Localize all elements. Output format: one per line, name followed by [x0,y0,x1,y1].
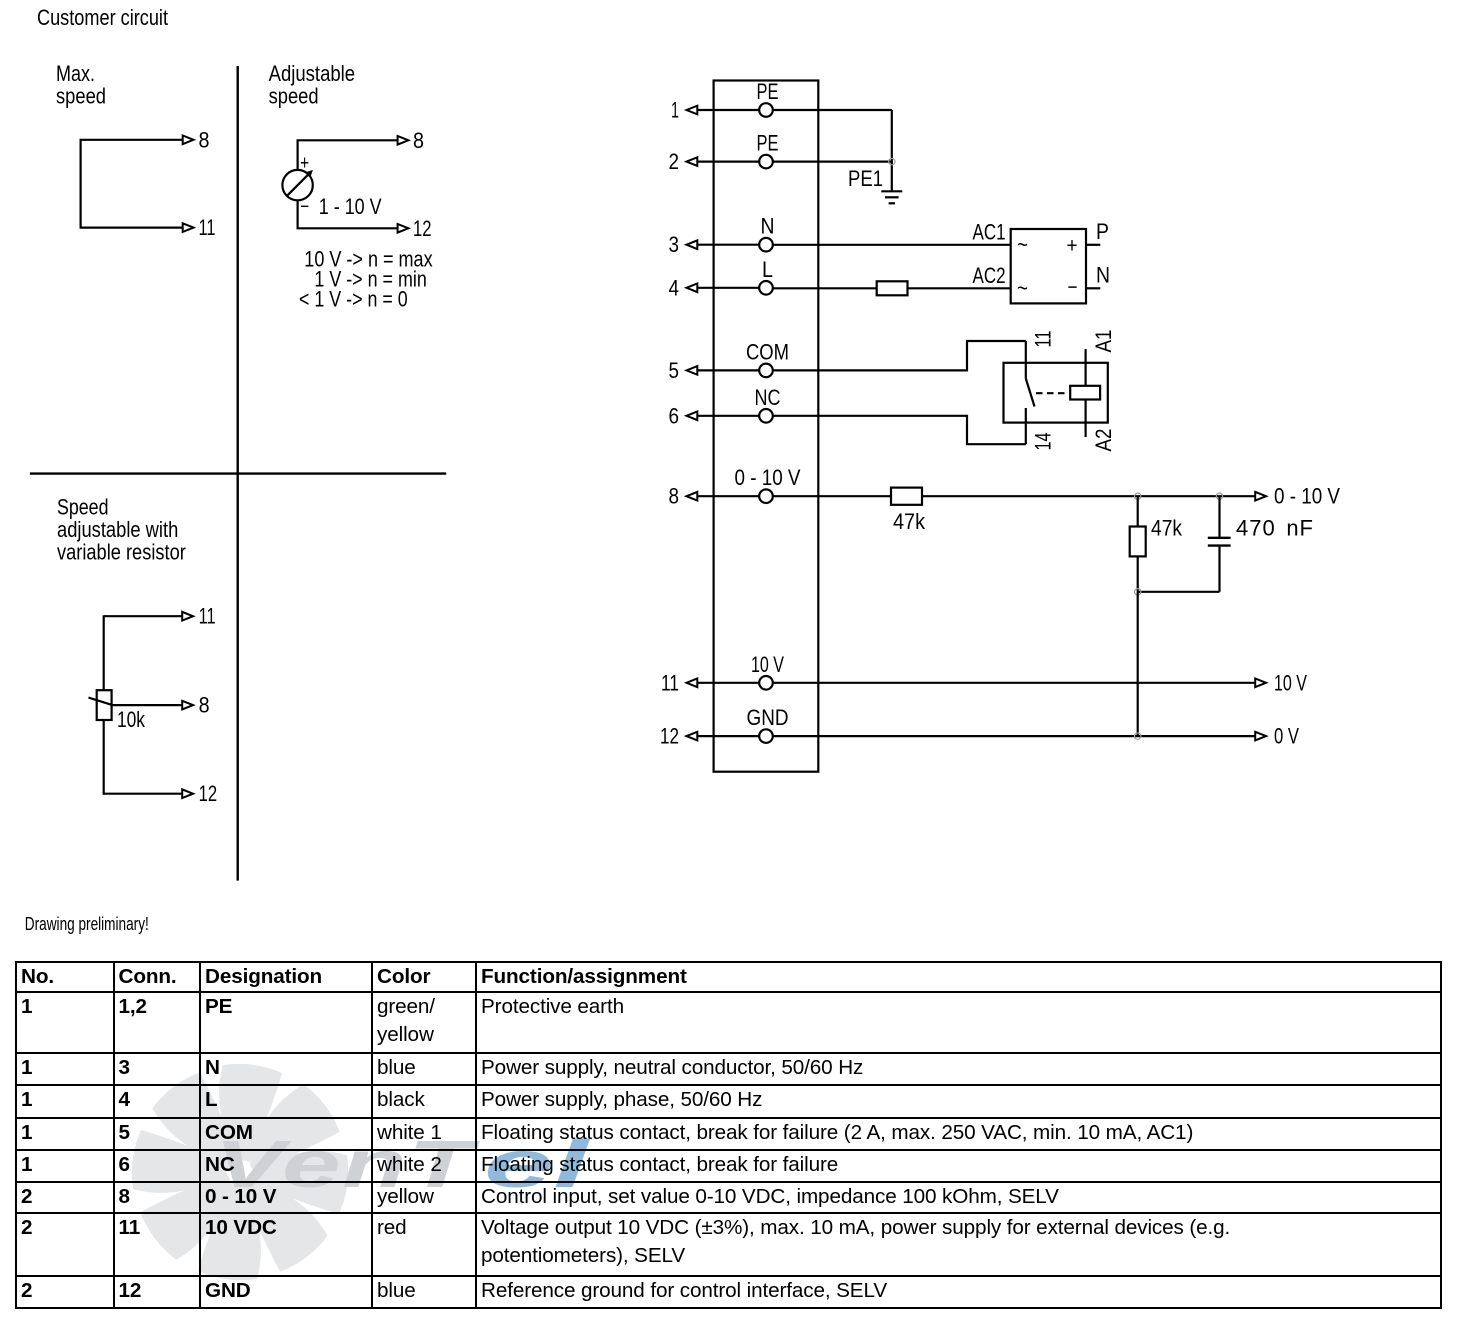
label - [300,196,309,218]
svg-text:L: L [762,257,773,282]
pin 5 label COM [746,339,789,364]
wire pin2 to PE1 [766,161,892,163]
fuse F1 [877,281,908,295]
svg-text:8: 8 [199,127,210,152]
svg-text:Max.: Max. [56,61,95,86]
connector block X1 [714,81,819,772]
pin 8 terminal circle [759,489,773,503]
value 1 - 10 V [319,194,382,219]
wire pot bottom lead [103,720,105,795]
rectifier U1 [1011,229,1086,303]
pin 2 label PE [757,131,779,156]
svg-text:COM: COM [746,339,789,364]
pin 1 wire [687,106,767,115]
svg-text:Drawing preliminary!: Drawing preliminary! [25,914,149,934]
svg-text:3: 3 [669,232,680,257]
voltage source 1-10V [282,170,313,200]
svg-text:speed: speed [269,84,319,109]
wire pin11 to output 10V [766,679,1266,688]
value 47k [893,509,926,534]
note voltage-speed mapping [299,247,433,312]
wire node B to C1 [1218,496,1220,537]
svg-text:2: 2 [669,149,680,174]
capacitor C1 470 nF [1208,538,1231,546]
pin 12 terminal circle [759,729,773,743]
label Adjustable speed [269,61,356,109]
label N [1096,262,1110,287]
svg-text:~: ~ [1017,232,1028,257]
node 8 [199,693,210,718]
pin 2 terminal circle [759,155,773,169]
svg-text:AC2: AC2 [973,263,1006,288]
svg-text:Customer circuit: Customer circuit [37,5,168,30]
wire max-speed vertical [79,139,81,229]
svg-text:variable resistor: variable resistor [57,540,186,565]
svg-text:< 1 V -> n = 0: < 1 V -> n = 0 [299,287,408,312]
node 12 [199,781,218,806]
svg-text:1 - 10 V: 1 - 10 V [319,194,382,219]
pin 2 wire [687,157,767,166]
relay K1 body [1004,363,1108,423]
divider vertical [236,66,238,881]
pin 5 number [669,358,680,383]
pin 12 label GND [747,705,789,730]
svg-text:8: 8 [669,484,680,509]
label A1 [1091,330,1116,353]
wire fuse to AC2 [908,287,1011,289]
heading Customer circuit [37,5,168,30]
wire pot to node 12 [104,789,193,798]
svg-text:adjustable with: adjustable with [57,517,178,542]
node 11 [199,215,216,240]
label output 0 V [1274,724,1299,749]
node 8 [413,128,424,153]
svg-text:A2: A2 [1091,429,1116,452]
pin 6 wire [687,412,767,421]
svg-text:−: − [300,196,309,218]
value 47k [1151,516,1183,541]
svg-text:AC1: AC1 [973,219,1006,244]
potentiometer R 10k [89,690,113,720]
svg-text:10 V: 10 V [1274,670,1307,695]
label AC2 [973,263,1006,288]
wire adj-speed to node 12 [298,224,409,233]
relay actuation dashed link [1036,392,1069,394]
wire pin5 to relay contact 11 [766,341,1026,371]
svg-text:11: 11 [199,215,216,240]
svg-text:GND: GND [747,705,789,730]
junction node B [1216,493,1222,499]
divider horizontal [30,472,446,474]
wire node C to GND rail [1137,592,1139,736]
pin 5 wire [687,366,767,375]
svg-text:12: 12 [199,781,218,806]
relay contact 14 lead [1025,408,1027,444]
wire source minus lead [297,200,299,229]
label Speed adjustable with variable resistor [57,495,186,565]
relay coil A2 lead [1084,400,1086,438]
wire wiper to node 8 [112,701,193,710]
pin 6 terminal circle [759,409,773,423]
svg-text:47k: 47k [1151,516,1183,541]
pin 12 number [660,724,679,749]
svg-text:NC: NC [755,385,781,410]
node 11 [199,604,216,629]
svg-text:~: ~ [1017,276,1028,301]
wire adj-speed to node 8 [298,136,409,145]
wire rectifier P output [1086,244,1100,246]
pin 6 label NC [755,385,781,410]
relay contact 11 lead [1025,341,1027,379]
svg-text:8: 8 [199,693,210,718]
svg-text:speed: speed [56,84,106,109]
svg-text:47k: 47k [893,509,926,534]
pin 4 label L [762,257,773,282]
svg-text:11: 11 [199,604,216,629]
wire pin6 to relay contact 14 [766,415,1026,444]
svg-text:470 nF: 470 nF [1236,516,1314,541]
label 11 [1031,331,1056,348]
node 12 [413,216,432,241]
svg-text:0 V: 0 V [1274,724,1299,749]
junction node A [1135,493,1141,499]
ground PE1 [881,191,902,203]
pin 5 terminal circle [759,364,773,378]
svg-text:−: − [1068,276,1078,299]
pin 11 wire [687,679,767,688]
pin 8 label 0 - 10 V [735,465,801,490]
wire max-speed to node 11 [81,223,194,232]
svg-text:0 - 10 V: 0 - 10 V [1274,484,1340,509]
pin 1 label PE [757,79,779,104]
svg-text:PE: PE [757,79,779,104]
svg-text:11: 11 [1031,331,1056,348]
pin 11 terminal circle [759,676,773,690]
svg-text:10k: 10k [117,707,146,732]
svg-text:P: P [1096,219,1109,244]
wire pin8 to R1 [766,495,891,497]
pin 1 terminal circle [759,103,773,117]
svg-text:5: 5 [669,358,680,383]
wire rectifier N output [1086,287,1100,289]
pin 4 number [669,275,680,300]
junction PE1 [889,158,895,164]
pin 4 wire [687,284,767,293]
wire pin3 to AC1 [766,244,1011,246]
label PE1 [848,166,883,191]
wire pot to node 11 [104,612,193,621]
wire pin4 to fuse [766,287,877,289]
label 14 [1031,433,1056,451]
pin 3 wire [687,240,767,249]
value 470 nF [1236,516,1314,541]
pin 8 wire [687,492,767,501]
watermark fan logo [132,1064,348,1280]
wire pin1 to PE1 [766,110,892,191]
svg-text:Speed: Speed [57,495,109,520]
pin 12 wire [687,732,767,741]
wire R2 to node C [1137,556,1139,591]
pin 4 terminal circle [759,281,773,295]
label P [1096,219,1109,244]
svg-text:8: 8 [413,128,424,153]
svg-text:12: 12 [413,216,432,241]
wire pin12 to output 0V [766,732,1266,741]
svg-text:PE: PE [757,131,779,156]
svg-text:A1: A1 [1091,330,1116,353]
wire C1 to node C [1138,547,1220,592]
svg-text:PE1: PE1 [848,166,883,191]
svg-text:4: 4 [669,275,680,300]
pin 3 label N [761,214,775,239]
label + [300,153,309,175]
svg-text:N: N [1096,262,1110,287]
svg-text:10 V: 10 V [751,652,784,677]
note Drawing preliminary! [25,914,149,934]
pin 11 number [661,670,679,695]
svg-text:6: 6 [669,403,680,428]
svg-text:N: N [761,214,775,239]
pin 1 number [671,98,679,123]
pin 6 number [669,403,680,428]
label AC1 [973,219,1006,244]
relay switch blade [1026,379,1035,407]
watermark text VenTel [214,1127,591,1202]
wire source plus lead [297,139,299,170]
svg-text:Adjustable: Adjustable [269,61,356,86]
pin 3 terminal circle [759,238,773,252]
svg-text:11: 11 [661,670,679,695]
label output 0 - 10 V [1274,484,1340,509]
label Max. speed [56,61,106,109]
svg-text:1: 1 [671,98,679,123]
wire R1 to output 0-10V [922,492,1266,501]
svg-text:14: 14 [1031,433,1056,451]
label A2 [1091,429,1116,452]
relay coil [1070,386,1100,400]
wire max-speed to node 8 [81,136,194,145]
resistor R2 47k [1130,527,1146,557]
resistor R1 47k [891,488,922,505]
junction GND rail [1135,733,1141,739]
svg-text:+: + [1067,235,1078,258]
relay coil A1 lead [1084,349,1086,386]
wire node A to R2 [1137,496,1139,526]
pin 2 number [669,149,680,174]
wire pot top lead [103,615,105,690]
svg-text:0 - 10 V: 0 - 10 V [735,465,801,490]
junction node C [1135,589,1141,595]
node 8 [199,127,210,152]
label output 10 V [1274,670,1307,695]
pin 3 number [669,232,680,257]
value 10k [117,707,146,732]
pin 11 label 10 V [751,652,784,677]
pin 8 number [669,484,680,509]
svg-text:12: 12 [660,724,679,749]
